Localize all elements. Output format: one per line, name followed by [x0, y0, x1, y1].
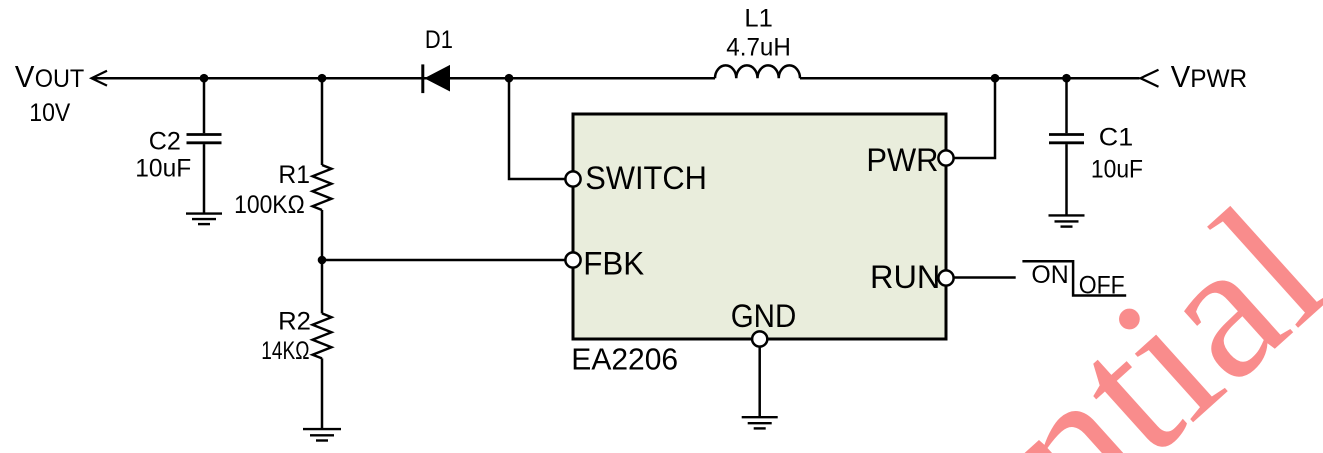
- label VOUT: [15, 59, 84, 94]
- svg-text:10uF: 10uF: [1091, 155, 1143, 183]
- svg-text:C1: C1: [1099, 124, 1133, 152]
- ground (C1): [1049, 215, 1085, 226]
- svg-text:V: V: [15, 59, 35, 94]
- wire FBK net: [322, 259, 573, 262]
- svg-text:10uF: 10uF: [135, 155, 191, 183]
- node PWR junction: [991, 74, 1000, 83]
- wire switch node to SWITCH pin: [509, 78, 573, 179]
- node VPWR: [1141, 70, 1159, 87]
- svg-text:100KΩ: 100KΩ: [234, 191, 305, 219]
- svg-text:PWR: PWR: [866, 142, 938, 178]
- label R1: [234, 161, 310, 219]
- inductor L1: [715, 65, 800, 78]
- label VPWR: [1171, 59, 1247, 94]
- svg-text:ON: ON: [1031, 261, 1068, 289]
- node FBK junction: [318, 256, 327, 265]
- node switch junction: [505, 74, 514, 83]
- capacitor C2: [187, 78, 222, 213]
- svg-text:OFF: OFF: [1079, 272, 1125, 300]
- op IC U1 EA2206 body: [573, 114, 946, 339]
- node C1 junction: [1062, 74, 1071, 83]
- pin RUN: [870, 259, 1016, 295]
- resistor R1: [313, 78, 332, 260]
- svg-text:L1: L1: [744, 5, 772, 33]
- ground (R2): [303, 429, 341, 440]
- pin SWITCH: [565, 160, 706, 196]
- svg-text:RUN: RUN: [870, 259, 940, 295]
- node R1 junction: [318, 74, 327, 83]
- svg-text:EA2206: EA2206: [571, 342, 678, 377]
- svg-text:10V: 10V: [29, 99, 70, 127]
- label L1: [726, 5, 791, 62]
- ground (C2): [186, 214, 222, 225]
- switch symbol ON/OFF: [1022, 261, 1126, 295]
- svg-text:4.7uH: 4.7uH: [726, 34, 791, 62]
- label R2: [261, 308, 311, 366]
- label C2: [135, 128, 191, 183]
- node VOUT: [92, 71, 108, 86]
- svg-text:C2: C2: [149, 128, 181, 156]
- svg-text:R1: R1: [278, 161, 310, 189]
- node C2 junction: [200, 74, 209, 83]
- svg-text:R2: R2: [278, 308, 311, 336]
- svg-text:V: V: [1171, 59, 1191, 94]
- svg-text:PWR: PWR: [1190, 65, 1247, 93]
- ground (GND pin): [742, 417, 778, 428]
- svg-text:OUT: OUT: [35, 65, 85, 93]
- wire main right: [800, 77, 1140, 80]
- wire main left: [92, 77, 716, 80]
- pin GND: [731, 298, 797, 417]
- pin PWR: [866, 78, 995, 178]
- pin FBK: [565, 245, 644, 281]
- diode D1: [423, 64, 450, 93]
- label C1: [1091, 124, 1143, 184]
- svg-text:D1: D1: [425, 26, 453, 54]
- resistor R2: [313, 260, 332, 429]
- svg-text:SWITCH: SWITCH: [585, 160, 707, 196]
- svg-text:GND: GND: [731, 298, 797, 334]
- svg-text:14KΩ: 14KΩ: [261, 337, 309, 365]
- capacitor C1: [1049, 78, 1084, 215]
- svg-text:FBK: FBK: [583, 245, 644, 281]
